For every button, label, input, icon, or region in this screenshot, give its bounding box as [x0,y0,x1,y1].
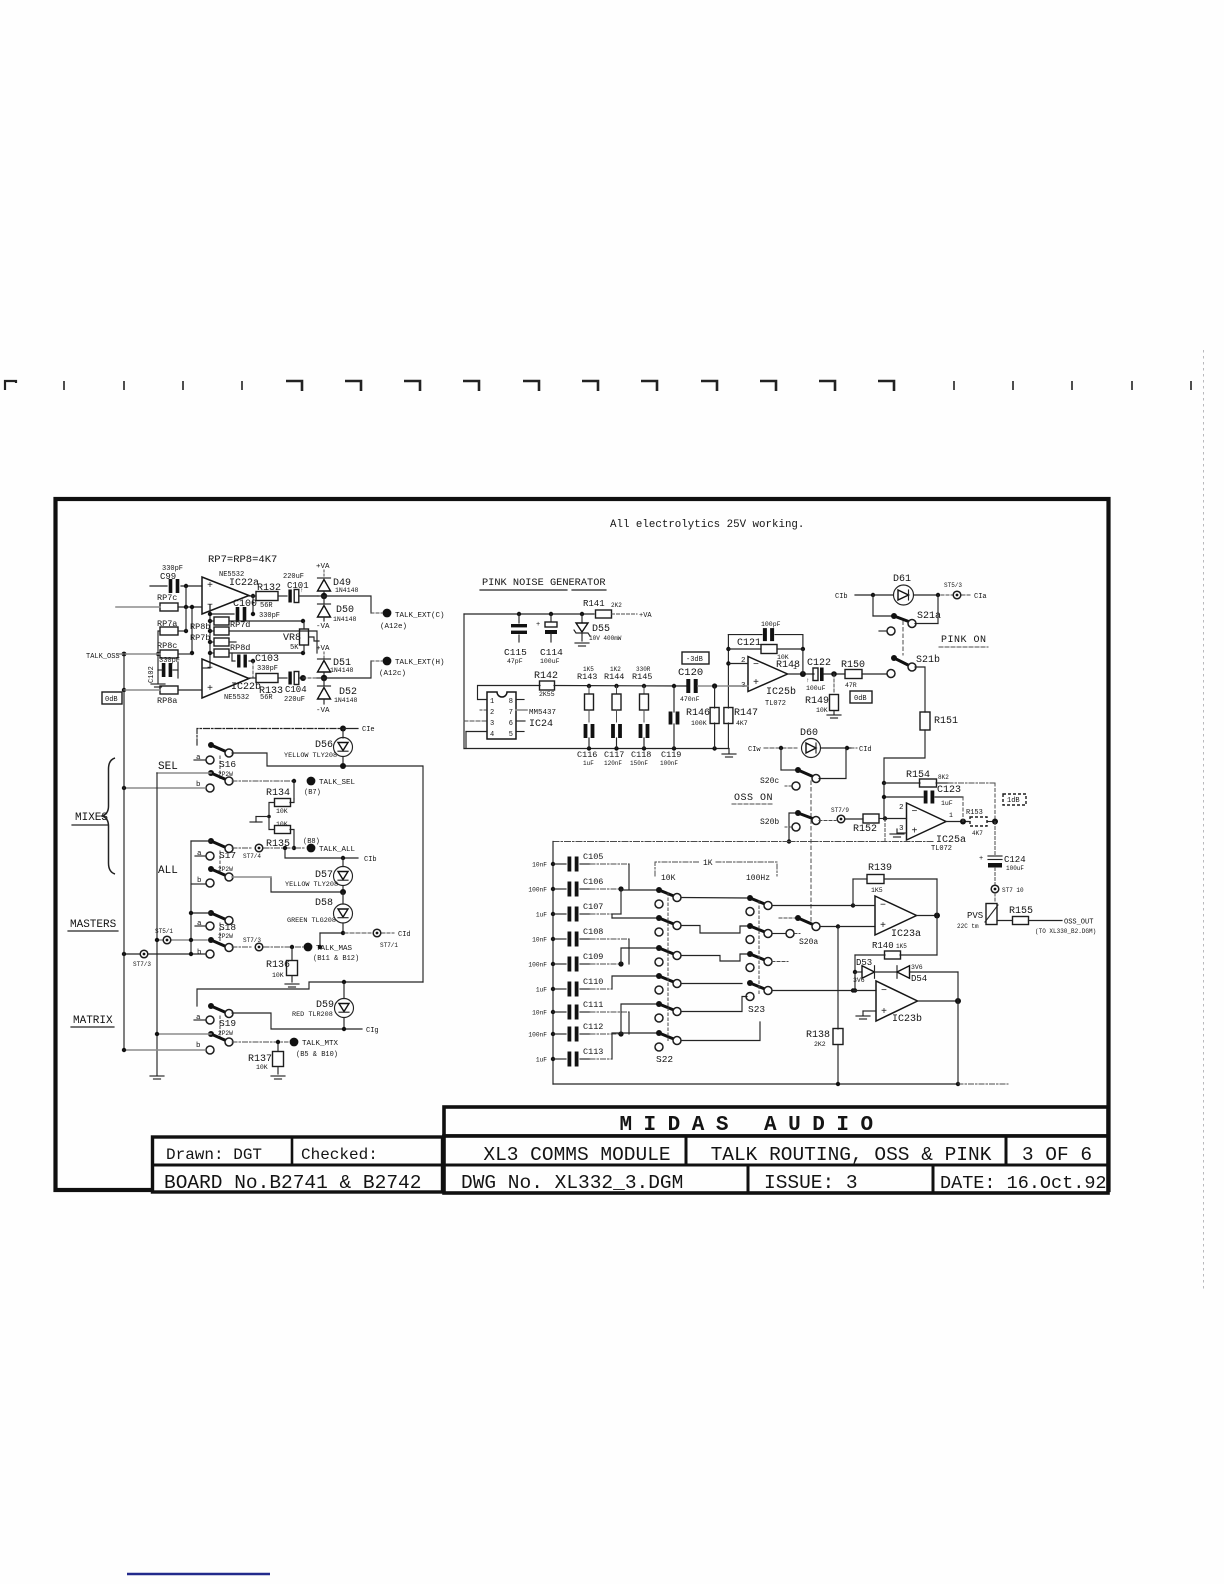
svg-text:PVS: PVS [967,911,983,921]
svg-text:All electrolytics 25V working.: All electrolytics 25V working. [610,519,804,531]
svg-text:330pF: 330pF [259,612,280,620]
wire TALK_ALL to CIb [285,848,358,858]
resistor RP8b [214,617,229,625]
switch S16 [208,742,214,748]
svg-text:Checked:: Checked: [301,1146,378,1164]
wire D57 bottom rail [271,877,344,892]
resistor R140 [900,954,937,956]
svg-text:C120: C120 [678,667,703,679]
svg-text:a: a [196,1014,201,1022]
left info box [153,1137,443,1192]
svg-text:1uF: 1uF [536,1057,547,1064]
svg-text:TALK_MAS: TALK_MAS [316,945,353,953]
svg-text:RP8d: RP8d [230,643,250,653]
wire R154 dashed drop [948,782,995,784]
connector ST7/9 [819,820,836,822]
wire RP7b row stub [229,641,236,643]
resistor R133 [256,674,278,683]
node TALK_SEL [307,777,316,786]
svg-text:IC25b: IC25b [766,686,796,698]
svg-text:C116: C116 [577,750,597,760]
svg-text:S19: S19 [219,1018,236,1029]
svg-text:1N4148: 1N4148 [330,667,354,674]
svg-text:S17: S17 [219,850,236,861]
node TALK_MAS [264,946,303,948]
svg-text:R134: R134 [266,788,290,799]
svg-text:+: + [979,855,983,863]
svg-text:RP8a: RP8a [157,696,177,706]
svg-text:↑: ↑ [806,677,810,684]
svg-text:5: 5 [509,731,513,739]
svg-text:100uF: 100uF [1006,865,1024,872]
ground SEL bus bottom [150,1075,164,1077]
svg-text:CIw: CIw [748,746,761,754]
svg-text:D57: D57 [315,870,333,881]
svg-text:GREEN TLG208: GREEN TLG208 [287,917,336,925]
svg-text:R154: R154 [906,770,930,781]
wire S19 pole b feed [157,1033,211,1035]
wire CIe rail [197,729,343,746]
svg-text:1K5: 1K5 [896,943,907,950]
svg-text:MM5437: MM5437 [529,709,556,717]
wire R151 down to OSS feedback [884,730,925,783]
svg-text:100nF: 100nF [528,887,547,894]
svg-text:D60: D60 [800,728,818,739]
op-amp IC23a [875,896,917,935]
svg-text:C106: C106 [583,877,603,887]
svg-text:R147: R147 [734,708,758,719]
svg-text:TALK_MTX: TALK_MTX [302,1040,339,1048]
svg-text:1K5: 1K5 [871,887,883,894]
svg-text:ALL: ALL [158,865,178,877]
svg-text:1: 1 [793,664,797,671]
svg-text:C112: C112 [583,1022,603,1032]
wire IC24 pin4 [466,731,487,733]
svg-text:10nF: 10nF [532,862,547,869]
svg-text:ST7/1: ST7/1 [380,942,398,949]
capacitor C114 [550,614,552,621]
svg-text:S20a: S20a [799,938,818,947]
svg-text:C107: C107 [583,902,603,912]
bus talk_oss lower [123,690,125,788]
svg-text:22C tm: 22C tm [957,923,979,930]
capacitor C103 [231,653,233,661]
svg-text:C122: C122 [807,658,831,669]
op-amp IC22b [202,659,249,698]
svg-text:S22: S22 [656,1054,673,1065]
svg-text:5K: 5K [290,644,299,652]
zener diode D55 [581,614,583,623]
svg-text:−: − [880,901,886,912]
svg-text:(TO XL330_B2.DGM): (TO XL330_B2.DGM) [1035,928,1096,935]
svg-text:C121: C121 [737,638,761,649]
wire R138 branch [837,927,839,1030]
svg-text:TALK_OSS: TALK_OSS [86,653,120,661]
svg-text:0dB: 0dB [854,695,867,703]
wire C99 to RP7c junction [185,586,187,607]
svg-text:a: a [197,920,202,928]
svg-text:+: + [536,621,540,629]
wire cap feeds group2 [590,938,629,940]
ground IC23b noninv [863,1010,876,1012]
svg-text:8K2: 8K2 [938,774,949,781]
svg-text:R152: R152 [853,824,877,835]
svg-text:220uF: 220uF [284,696,305,704]
svg-text:b: b [197,949,202,957]
ground tee R134 R135 [267,815,271,819]
IC24 noise chip MM5437 [487,692,516,739]
PERFORATION MARKS ROW (decorative tractor-feed marks) [5,381,1191,391]
svg-text:NE5532: NE5532 [224,694,249,702]
svg-text:C103: C103 [255,654,279,665]
wire pink bottom rail [464,748,729,750]
svg-text:+: + [881,1007,887,1018]
svg-text:C123: C123 [937,785,961,796]
svg-text:(B7): (B7) [304,789,321,797]
wire D59 top rail [197,982,423,1006]
svg-text:IC24: IC24 [529,719,553,730]
svg-text:S21b: S21b [916,654,940,666]
svg-text:TL072: TL072 [765,700,786,708]
svg-text:10V 400mW: 10V 400mW [589,635,622,642]
connector CId ST7/1 [373,929,381,937]
wire S16b arm to TALK_SEL [232,780,294,782]
svg-text:C117: C117 [604,750,624,760]
svg-text:10K: 10K [272,972,284,979]
gang dashed S20 sections [810,781,812,924]
svg-text:C99: C99 [160,572,176,582]
svg-text:R143: R143 [577,672,597,682]
svg-text:-VA: -VA [316,707,330,715]
capacitor C104 [288,672,291,685]
svg-text:10K: 10K [816,707,828,714]
svg-text:↑: ↑ [300,587,304,594]
LED D57 [342,858,344,867]
svg-text:b: b [196,1042,201,1050]
svg-text:ST5/1: ST5/1 [155,928,173,935]
switch S17 [208,838,214,844]
svg-text:MIDAS AUDIO: MIDAS AUDIO [619,1114,884,1137]
0dB boxed label [102,692,122,704]
svg-text:+: + [912,826,918,837]
svg-text:1N4148: 1N4148 [335,587,359,594]
svg-text:−: − [881,986,887,997]
svg-text:D61: D61 [893,574,911,585]
node TALK_EXT(H) [383,657,392,666]
connector ST5/3 CIa [941,594,952,596]
svg-text:8: 8 [509,698,513,706]
node vertical x186 [185,607,187,631]
svg-text:R140: R140 [872,941,894,951]
svg-text:CId: CId [398,931,411,939]
switch S18 [208,910,214,916]
svg-text:-3dB: -3dB [686,656,703,664]
capacitor C102 [148,666,156,683]
resistor RP7b [214,638,229,646]
svg-text:C105: C105 [583,852,603,862]
svg-text:YELLOW TLY208: YELLOW TLY208 [284,752,337,760]
svg-text:+VA: +VA [316,563,330,571]
svg-text:R149: R149 [805,696,829,707]
svg-text:D56: D56 [315,740,333,751]
svg-text:TALK_ALL: TALK_ALL [319,846,356,854]
svg-text:OSS_OUT: OSS_OUT [1064,919,1093,927]
switch S21b [891,655,897,661]
svg-text:47R: 47R [845,682,857,689]
svg-text:470nF: 470nF [680,696,700,703]
svg-text:RP8b: RP8b [190,622,210,632]
wire pin2 node vertical [727,635,729,664]
svg-text:MATRIX: MATRIX [73,1015,113,1027]
svg-text:R153: R153 [966,809,983,817]
svg-text:BOARD No.B2741 & B2742: BOARD No.B2741 & B2742 [164,1172,421,1194]
svg-text:TALK_SEL: TALK_SEL [319,779,356,787]
svg-text:1uF: 1uF [536,987,547,994]
svg-text:3V6: 3V6 [911,964,923,971]
svg-text:(A12e): (A12e) [380,623,407,631]
junction D51 D52 [321,675,327,681]
svg-text:YELLOW TLY208: YELLOW TLY208 [285,881,338,889]
connector ST7 10 [991,885,999,893]
connector ST7/4 [232,847,253,849]
svg-text:IC22a: IC22a [229,578,259,589]
wire to D51 junction dashed [303,677,317,679]
svg-text:MIXES: MIXES [75,812,108,824]
switch column S22 [656,887,662,893]
svg-text:CIe: CIe [362,726,375,734]
resistor R139 [852,879,854,906]
svg-text:+: + [753,678,759,689]
svg-text:C124: C124 [1004,855,1026,865]
svg-text:10nF: 10nF [532,937,547,944]
svg-text:330pF: 330pF [257,665,278,673]
svg-text:DATE: 16.Oct.92: DATE: 16.Oct.92 [940,1173,1107,1194]
svg-text:C115: C115 [504,647,527,658]
svg-text:CId: CId [859,746,872,754]
wire S23 arm3 stub [772,961,788,963]
boxed label -3dB [682,652,709,664]
wire S22 arms to S23 poles [681,897,747,900]
svg-text:a: a [197,850,202,858]
wire IC24 right stubs [516,699,524,701]
svg-text:CIb: CIb [364,856,377,864]
svg-text:47pF: 47pF [507,658,523,665]
svg-text:220uF: 220uF [283,573,304,581]
svg-text:1: 1 [949,812,953,819]
svg-text:4K7: 4K7 [972,830,983,837]
svg-text:10K: 10K [276,821,288,828]
bus LED right vertical [422,766,424,982]
ground under C102 [157,670,159,683]
svg-text:ST7/4: ST7/4 [243,853,261,860]
svg-text:C104: C104 [285,685,307,695]
wire S23 arm1 to IC23a [772,905,853,907]
boxed label 1dB [1003,794,1026,805]
capacitor C119 [673,686,675,712]
svg-text:S21a: S21a [917,611,941,622]
wire IC24 pin3 [464,720,487,722]
wire S21b to R151 [915,667,925,712]
diode D52 [323,678,325,685]
svg-text:150nF: 150nF [630,760,648,767]
resistor RP8d [214,649,229,657]
svg-text:IC23b: IC23b [892,1013,922,1025]
svg-text:10K: 10K [256,1064,268,1071]
svg-text:C109: C109 [583,952,603,962]
capacitor C117 [611,724,615,738]
wire D53 to IC23b inv [854,972,856,991]
resistor R136 [290,945,294,949]
svg-text:ST7/9: ST7/9 [831,807,849,814]
resistor R151 [920,712,930,730]
node CId right [851,747,857,749]
svg-text:+: + [880,921,886,932]
wire S20a to IC23a noninv [838,926,875,928]
svg-text:RP7=RP8=4K7: RP7=RP8=4K7 [208,554,277,566]
svg-text:3: 3 [899,825,904,833]
wire OSS feedback node [883,783,885,819]
switch S20c [780,748,782,770]
svg-text:DWG No. XL332_3.DGM: DWG No. XL332_3.DGM [461,1172,683,1194]
capacitor C124 [994,822,996,856]
svg-text:+VA: +VA [316,645,330,653]
svg-text:1uF: 1uF [536,912,547,919]
svg-text:C111: C111 [583,1000,603,1010]
svg-text:D54: D54 [911,974,927,984]
svg-text:56R: 56R [260,602,273,610]
resistor RP7d [214,627,229,635]
svg-text:Drawn: DGT: Drawn: DGT [166,1146,262,1164]
svg-text:R145: R145 [632,672,652,682]
wire IC24 pin1 loop to R142 [478,686,541,700]
wire inverting node vertical [191,607,193,653]
svg-text:PINK ON: PINK ON [941,635,987,646]
svg-text:XL3 COMMS MODULE: XL3 COMMS MODULE [483,1144,670,1166]
svg-text:RP7c: RP7c [157,593,177,603]
capacitor C123 [884,796,923,798]
blue pen line bottom left [127,1573,270,1575]
capacitor C116 [584,724,588,738]
svg-text:4K7: 4K7 [736,720,748,727]
svg-text:120nF: 120nF [604,760,622,767]
svg-text:R151: R151 [934,716,958,727]
wire to TALK_EXT(H) [324,661,371,678]
svg-text:100uF: 100uF [540,658,560,665]
resistor R152 [846,818,863,820]
svg-text:100uF: 100uF [806,685,826,692]
resistor R137 [277,1041,279,1043]
wire S23 arm4 to IC23b [772,990,853,992]
svg-text:7: 7 [509,709,513,717]
switch S20a [779,917,795,919]
svg-text:0dB: 0dB [105,696,118,704]
svg-text:1N4148: 1N4148 [334,697,358,704]
wire IC23b output loop [918,1000,959,1002]
wire RP7a left tie [158,631,160,670]
resistor R149 [833,674,835,694]
svg-text:OSS ON: OSS ON [734,793,773,804]
wire down to D53 [854,955,856,972]
wire S16a to LED rail [232,753,422,766]
connector ST7/3 right [232,946,253,948]
LED D56 [342,729,344,739]
svg-text:(B5 & B10): (B5 & B10) [296,1051,338,1059]
svg-text:100nF: 100nF [528,962,547,969]
svg-text:D50: D50 [336,605,354,616]
svg-text:ISSUE: 3: ISSUE: 3 [764,1172,858,1194]
svg-text:−: − [912,807,918,818]
svg-text:10K: 10K [276,808,288,815]
svg-text:TALK ROUTING, OSS & PINK: TALK ROUTING, OSS & PINK [711,1144,992,1166]
capacitor C118 [639,724,643,738]
svg-text:1uF: 1uF [941,800,953,807]
svg-text:3: 3 [490,720,494,728]
svg-text:C118: C118 [631,750,651,760]
svg-text:3 OF 6: 3 OF 6 [1022,1144,1092,1166]
svg-text:56R: 56R [260,694,273,702]
svg-text:R144: R144 [604,672,624,682]
svg-text:VR8: VR8 [283,633,301,644]
svg-text:D58: D58 [315,898,333,909]
switch S21a lower contact [887,627,895,635]
svg-text:2: 2 [899,804,904,812]
LED D59 [343,983,345,999]
wire RP7d row [229,631,317,653]
svg-text:CIa: CIa [974,593,987,601]
ground pink rail [728,749,730,754]
svg-text:S23: S23 [748,1004,765,1015]
wire IC25a inputs [885,818,907,820]
wire C123 dashed drop [962,797,964,822]
svg-text:S20b: S20b [760,818,779,827]
svg-text:1K: 1K [703,859,713,868]
MAIN DRAWING FRAME [56,499,1109,1190]
svg-text:2: 2 [490,709,494,717]
svg-text:100pF: 100pF [761,621,781,628]
bracket 1K 10K 100Hz [655,862,700,876]
svg-text:D55: D55 [592,624,610,635]
svg-text:D59: D59 [316,1000,334,1011]
svg-text:100Hz: 100Hz [746,874,770,883]
svg-text:ST7/3: ST7/3 [243,937,261,944]
wire IC23a output [917,915,938,917]
svg-text:R139: R139 [868,863,892,874]
svg-text:R155: R155 [1009,906,1033,917]
svg-text:SEL: SEL [158,761,178,773]
LED D58 [342,892,344,904]
svg-text:100nF: 100nF [660,760,678,767]
svg-text:+: + [207,684,213,695]
svg-text:1N4148: 1N4148 [333,616,357,623]
svg-text:C114: C114 [540,647,563,658]
wire IC24 pin2 stub [480,709,487,711]
svg-text:IC23a: IC23a [891,929,921,940]
switch S19 [208,1003,214,1009]
svg-text:CIb: CIb [835,593,848,601]
svg-text:R141: R141 [583,599,605,609]
svg-text:C119: C119 [661,750,681,760]
svg-text:10nF: 10nF [532,1010,547,1017]
svg-text:+VA: +VA [639,612,652,620]
boxed label 0dB [850,691,872,703]
wire S23 arm2 contact [772,933,786,935]
svg-text:100K: 100K [691,720,707,727]
diode D50 [323,596,325,604]
wire pink top rail [464,613,594,615]
TITLE BLOCK [153,1107,1109,1194]
node TALK_ALL [264,847,306,849]
switch S21a [872,595,874,616]
